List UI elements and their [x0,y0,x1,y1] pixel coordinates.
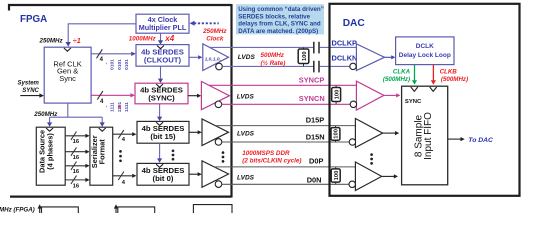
wire SYNC N [222,103,351,105]
svg-text:250MHz: 250MHz [39,37,64,44]
svg-text:(bit 15): (bit 15) [150,132,176,141]
svg-text:FPGA: FPGA [20,14,47,25]
wire dashed 250MHz clock into PLL [190,21,219,26]
wire bottom arrow 1 [38,204,42,213]
svg-text:LVDS: LVDS [237,93,255,100]
op D0 receiver U13 [349,162,382,191]
svg-text:250MHz: 250MHz [33,111,58,118]
node dots between driver bit15 and bit0 [222,151,225,162]
svg-text:4: 4 [100,57,104,63]
op LVDS driver bit0 Q4 [202,161,229,188]
op 4b SERDES (SYNC) U4 [135,83,188,104]
wire Ref CLK to SERDES CLKOUT (4-bit bus) [91,49,136,58]
wire serializer to serdes bit15 [113,130,137,143]
op 4x Clock Multiplier PLL U1 [136,14,189,33]
label sync bit pattern [106,101,130,112]
wire D15 receiver to FIFO [383,131,400,135]
wire SYNC receiver to FIFO [384,93,401,97]
svg-text:CLKB: CLKB [440,68,458,75]
FPGA outer box [8,4,232,198]
resistor R4 100 ohm D0 termination [331,167,340,184]
svg-text:MHz (FPGA): MHz (FPGA) [0,206,35,213]
wire DCLK P [210,46,357,48]
op 4b SERDES (bit 0) U6 [137,163,189,185]
capacitor C2 (DCLK N) [314,61,319,73]
svg-text:D0P: D0P [309,157,323,166]
svg-text:16: 16 [73,139,80,145]
wire Ref CLK to SERDES SYNC (4-bit bus) [91,91,135,100]
svg-text:0: 0 [117,105,123,108]
wire Ref CLK down to data source and serializer [50,103,103,123]
wire DCLK receiver to DLL [384,55,395,59]
node bottom partial box 2 [118,207,155,213]
wire clock SYNC to bit15 serdes [157,104,162,121]
op 8 Sample Input FIFO U14 [402,86,448,185]
svg-text:4: 4 [100,99,104,105]
svg-text:LVDS: LVDS [237,175,255,182]
svg-text:D15P: D15P [306,116,325,125]
svg-text:(CLKOUT): (CLKOUT) [144,56,182,65]
label clock bit pattern 0101 [106,59,131,70]
node dots between DAC receivers [370,153,373,164]
node dots between serdes bit15 and bit0 [172,149,175,160]
svg-text:,: , [106,104,108,109]
svg-text:4: 4 [122,180,126,186]
svg-text:100: 100 [334,90,340,100]
svg-text:DCLKP: DCLKP [332,38,358,47]
node dots right of serializer [119,150,122,162]
wire serdes bit0 to lvds driver [189,172,202,176]
wire bottom arrow 2 [114,204,118,213]
svg-text:D15N: D15N [306,132,325,141]
resistor R1 100 ohm DCLK termination [298,47,309,66]
svg-text:100: 100 [334,129,340,139]
svg-text:250MHz: 250MHz [202,28,227,35]
svg-text:SYNCP: SYNCP [299,76,325,85]
svg-text:SYNC: SYNC [405,99,422,105]
DAC outer box [330,4,520,196]
svg-text:DAC: DAC [343,18,366,29]
svg-text:D0N: D0N [307,176,322,185]
svg-text:DATA are matched. (200pS): DATA are matched. (200pS) [238,28,318,35]
svg-text:Input FIFO: Input FIFO [423,112,434,160]
svg-text:(4 phases): (4 phases) [46,133,55,170]
svg-text:SYNCN: SYNCN [299,94,325,103]
wire PLL to Ref CLK (250MHz) [66,24,137,47]
svg-text:Sync: Sync [59,74,76,83]
svg-text:16: 16 [73,169,80,175]
op LVDS driver bit15 Q3 [202,119,229,146]
op DCLK receiver U9 [350,44,385,71]
wire clock CLKOUT to SYNC serdes [158,66,163,83]
svg-text:4: 4 [122,137,126,143]
wire serializer to serdes bit0 [113,172,137,186]
wire DCLK N [222,65,350,67]
op 4b SERDES (CLKOUT) U2 [136,45,189,67]
wire data source to serializer bus 1 [65,132,89,146]
wire PLL to SERDES CLKOUT (1000MHz) [158,33,163,44]
resistor R2 100 ohm SYNC termination [332,85,341,104]
wire D0 N [222,183,349,185]
svg-text:Using common “data driven”: Using common “data driven” [238,6,324,13]
capacitor C1 (DCLK P) [314,42,319,54]
op Serializer Format U8 [90,127,113,185]
svg-text:SERDES blocks, relative: SERDES blocks, relative [238,13,310,20]
op SYNC receiver U11 [350,81,384,110]
svg-text:1,0,1,0,: 1,0,1,0, [205,56,221,62]
svg-text:Delay Lock Loop: Delay Lock Loop [399,52,451,59]
svg-text:1111: 1111 [110,102,116,112]
svg-text:Format: Format [97,139,106,165]
svg-text:Clock: Clock [206,36,224,43]
op Ref CLK Gen & Sync U3 [44,47,91,103]
svg-text:,: , [106,61,108,66]
svg-text:DCLK: DCLK [416,43,434,50]
svg-text:SYNC: SYNC [22,88,39,94]
svg-text:0101: 0101 [117,59,123,70]
svg-text:delays from CLK, SYNC and: delays from CLK, SYNC and [238,21,321,28]
wire data source to serializer bus 3 [65,162,89,176]
wire serdes sync to lvds driver [188,94,201,98]
svg-text:(500MHz): (500MHz) [383,76,410,83]
svg-text:100: 100 [302,51,308,61]
svg-text:x4: x4 [164,34,174,43]
node bottom partial box 3 [193,205,232,213]
op D15 receiver U12 [349,119,382,148]
svg-text:16: 16 [73,183,80,189]
op LVDS driver sync Q2 [201,82,229,110]
op LVDS driver clkout Q1 [203,44,229,71]
svg-text:16: 16 [73,155,80,161]
svg-text:To DAC: To DAC [468,137,493,144]
svg-text:1000MHz: 1000MHz [129,36,157,43]
svg-text:(SYNC): (SYNC) [148,94,175,103]
svg-text:0101: 0101 [124,59,130,70]
svg-text:System: System [18,80,40,86]
svg-text:Multiplier PLL: Multiplier PLL [139,23,187,32]
wire data source to serializer bus 2 [65,147,89,161]
wire FIFO to DAC output [448,137,465,141]
svg-text:500MHz: 500MHz [261,52,285,59]
wire CLKB red [431,65,436,85]
wire D15 P [215,125,355,127]
svg-text:(bit 0): (bit 0) [153,174,174,183]
wire D15 N [222,141,349,143]
wire serdes clkout to lvds driver [189,55,202,59]
svg-text:(½ Rate): (½ Rate) [261,59,286,67]
svg-text:1111: 1111 [124,102,130,112]
svg-text:CLKA: CLKA [393,68,411,75]
svg-text:DCLKN: DCLKN [332,53,358,62]
wire data source to serializer bus 4 [65,176,89,190]
wire D0 P [214,166,355,168]
op DCLK Delay Lock Loop U10 [396,37,454,65]
svg-text:1000MSPS DDR: 1000MSPS DDR [242,150,290,157]
svg-text:÷1: ÷1 [73,36,81,45]
wire SYNC P [209,84,357,86]
resistor R3 100 ohm D15 termination [331,126,340,142]
svg-text:(500MHz): (500MHz) [441,76,468,83]
svg-text:(2 bits/CLKIN cycle): (2 bits/CLKIN cycle) [242,158,301,165]
op 4b SERDES (bit 15) U5 [137,121,189,143]
wire D0 receiver to FIFO [382,174,398,178]
wire CLKA green [412,65,417,85]
svg-text:100: 100 [334,171,340,181]
svg-text:LVDS: LVDS [237,131,255,138]
wire System SYNC input [20,93,44,97]
note box (data driven serdes) [236,4,324,35]
node bottom partial box 1 [42,207,79,213]
op Data Source (4 phases) U7 [36,127,65,185]
wire serdes bit15 to lvds driver [189,130,202,134]
svg-text:0101: 0101 [110,59,116,70]
wire clock bit15 to bit0 serdes [157,143,162,163]
svg-text:LVDS: LVDS [238,54,256,61]
